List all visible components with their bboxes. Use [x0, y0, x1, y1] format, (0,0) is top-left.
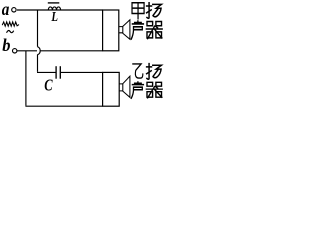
wire C branch right	[61, 71, 103, 73]
wire b rail left segment	[17, 50, 37, 52]
svg-text:b: b	[2, 35, 10, 55]
label qi (器) line2 bottom	[146, 82, 162, 98]
inductor L humps	[48, 7, 60, 10]
svg-text:a: a	[2, 0, 10, 19]
capacitor C left plate	[55, 66, 57, 79]
inductor L core bar	[48, 2, 60, 4]
wire hop over b rail	[37, 47, 40, 55]
wire a-branch vertical upper	[37, 10, 39, 47]
speaker jia cone connectors	[119, 27, 123, 33]
label jia (甲)	[132, 3, 144, 19]
wire b rail right segment	[40, 50, 102, 52]
label sheng (声) line2 bottom	[131, 82, 143, 98]
label qi (器) line2 top	[146, 21, 162, 38]
terminal b	[13, 49, 17, 53]
source waveform squiggle	[2, 22, 19, 26]
capacitor C right plate	[59, 66, 61, 79]
speaker yi box	[103, 72, 120, 106]
speaker yi cone connectors	[119, 84, 123, 91]
speaker yi cone trapezoid	[123, 76, 130, 97]
wire C branch left	[37, 71, 56, 73]
wire top rail	[17, 9, 103, 11]
wire bottom rail	[25, 105, 102, 107]
svg-text:C: C	[44, 75, 53, 94]
label yang (扬) line1 bottom	[147, 64, 162, 80]
label yang (扬) line1 top	[147, 3, 162, 19]
label sheng (声) line2 top	[131, 21, 143, 39]
speaker jia cone trapezoid	[123, 20, 130, 40]
label yi (乙) line1 bottom	[133, 64, 143, 78]
speaker jia box	[103, 10, 119, 51]
terminal a	[12, 8, 16, 12]
wire b drop to bottom rail	[25, 51, 27, 106]
wire a-branch vertical lower	[37, 55, 39, 72]
svg-text:L: L	[51, 10, 58, 25]
AC tilde	[7, 31, 14, 33]
